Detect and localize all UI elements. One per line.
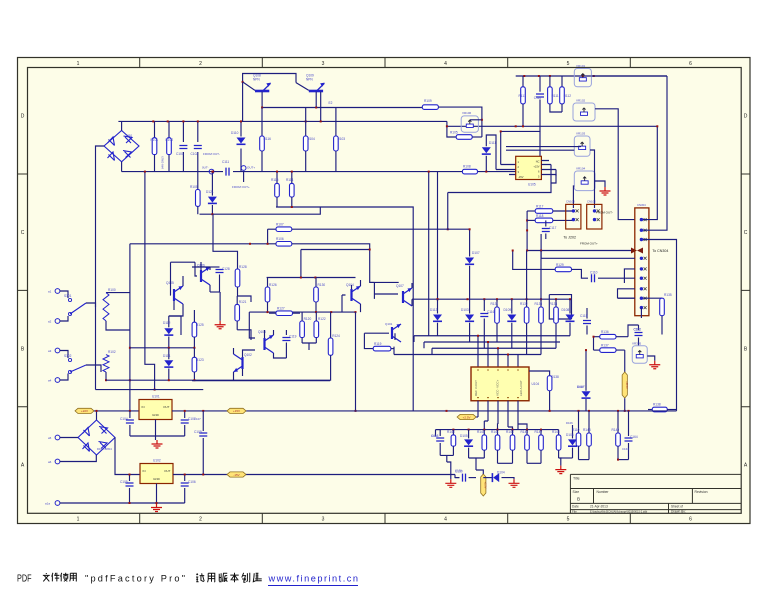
ground: [555, 466, 566, 474]
wire Q104 emitter down: [355, 312, 357, 411]
power flag vertical right: [624, 350, 626, 372]
wire R136 R137 left link: [593, 337, 595, 350]
wire branch to Q cluster: [301, 249, 370, 251]
wire +15V rail: [172, 410, 677, 412]
wire Q109 collector drop: [320, 92, 322, 122]
capacitor C105: [129, 475, 131, 482]
resistor R110: [578, 411, 580, 433]
power flag +15V: [227, 408, 246, 413]
wire trunk C: [447, 193, 449, 230]
diode D121: [208, 197, 217, 203]
wire C113 R145 bottom: [440, 455, 453, 479]
port: [241, 166, 246, 171]
capacitor C101: [179, 146, 187, 149]
resistor R114: [290, 183, 295, 197]
wire link bottom right2: [618, 459, 629, 461]
wire Q-cluster feed: [300, 250, 302, 278]
capacitor C111: [226, 168, 229, 176]
wire R129 right: [572, 269, 589, 278]
resistor R146: [558, 430, 560, 435]
capacitor C119: [285, 330, 287, 335]
port: [55, 501, 60, 506]
capacitor C164: [625, 438, 633, 441]
resistor R113: [521, 87, 526, 104]
ground: [152, 440, 163, 448]
wire Q102 wiring: [234, 348, 256, 381]
power flag +22V: [75, 408, 94, 413]
diode D197: [585, 350, 587, 391]
wire R136 R137 right links: [616, 337, 628, 350]
trimmer VR106: [461, 116, 478, 132]
capacitor C110: [536, 94, 544, 97]
capacitor C130: [455, 477, 459, 479]
connector CN103: [566, 204, 581, 229]
capacitor C106: [181, 483, 189, 486]
wire rail y389: [96, 389, 204, 391]
diode D107: [465, 258, 474, 264]
transistor Q106: [200, 270, 202, 282]
resistor R134: [555, 299, 557, 307]
diode D121: [211, 172, 213, 196]
resistor R122: [314, 321, 319, 338]
resistor R134: [554, 307, 559, 323]
wire Q107 collector: [411, 283, 413, 288]
wire VR104 gnd: [595, 181, 605, 187]
resistor R149: [616, 433, 621, 446]
capacitor C115: [583, 321, 591, 324]
capacitor C113: [436, 438, 444, 441]
switch S102: [68, 358, 71, 361]
resistor R128: [235, 269, 240, 287]
wire out- rail right part: [233, 171, 516, 173]
resistor R124: [328, 338, 333, 355]
wire VR103 left lines: [506, 147, 581, 151]
wire VR305 gnd: [647, 356, 655, 361]
power flag +2.5V: [457, 414, 476, 419]
wire pin feed vertical: [500, 131, 502, 164]
resistor R143: [512, 430, 514, 435]
wire D112 top: [169, 316, 181, 335]
wire R105 line: [447, 126, 456, 137]
wire rail to CN304: [527, 250, 631, 252]
resistor R148: [588, 411, 590, 433]
inner border frame: [28, 68, 742, 514]
trimmer VR101: [574, 69, 591, 87]
wire rail y214: [200, 207, 321, 214]
wire cluster top rail: [267, 277, 356, 279]
wire Q105 wiring: [169, 276, 183, 316]
wire R104 column: [305, 108, 307, 137]
wire pin6 net: [555, 170, 557, 177]
capacitor C102: [194, 146, 202, 149]
wire trunk x129: [129, 244, 131, 411]
wire VR106 wiper: [470, 119, 482, 121]
resistor R143: [510, 435, 515, 450]
transistor Q107: [402, 291, 404, 303]
wire R100 bottom: [106, 321, 130, 330]
capacitor C110: [592, 274, 595, 282]
resistor R126: [265, 287, 270, 302]
wire pin9 down: [640, 308, 642, 318]
regulator U101: [139, 400, 172, 420]
resistor R123: [192, 357, 197, 372]
wire VR104 to CN103: [572, 186, 575, 208]
diode D112: [168, 316, 170, 327]
wire Q109 emitter: [315, 92, 317, 108]
wire D104 right gnd: [502, 478, 515, 480]
capacitor C105: [126, 483, 134, 486]
wire VR102 out: [595, 109, 635, 220]
resistor R115: [276, 172, 278, 184]
power flag -15V: [227, 472, 246, 477]
resistor R145: [452, 430, 454, 435]
wire bridge left to trunk: [96, 146, 105, 307]
resistor R132: [526, 251, 528, 308]
resistor R127: [276, 311, 293, 316]
wire trunk B: [437, 172, 439, 300]
diode D105: [464, 439, 473, 445]
wire CN pin2 right: [643, 76, 667, 230]
wire out- rail: [122, 171, 223, 173]
wire Q107 base loop: [370, 282, 398, 299]
wire R128 feed: [213, 214, 238, 262]
transistor Q104: [350, 289, 352, 301]
resistor R130: [315, 278, 317, 288]
resistor R102: [167, 138, 172, 155]
diode D106: [572, 425, 574, 438]
capacitor C116: [480, 314, 488, 317]
resistor R105b: [197, 172, 199, 190]
diode D107 trunk: [469, 229, 471, 256]
resistor R132: [524, 307, 529, 323]
resistor R108: [462, 169, 477, 174]
wire bus row2: [424, 341, 560, 343]
capacitor C115: [586, 308, 588, 319]
capacitor C104: [129, 411, 131, 418]
trimmer VR305: [632, 346, 647, 364]
capacitor C128: [210, 266, 220, 268]
wire rail y380: [106, 379, 330, 381]
wire pin5 net: [624, 269, 634, 283]
diode D109: [511, 299, 513, 313]
wire R112 column: [561, 76, 563, 87]
resistor R107: [276, 227, 292, 232]
capacitor C102: [197, 121, 199, 142]
resistor R136: [600, 334, 616, 339]
wire bridge2 top: [96, 411, 98, 420]
wire R118 right: [553, 219, 574, 221]
diode D105: [468, 430, 470, 439]
capacitor C109: [199, 433, 207, 436]
switch S101: [68, 298, 71, 301]
wire -15V rail: [173, 474, 455, 476]
resistor R125: [192, 322, 197, 337]
transistor Q109: [296, 83, 309, 91]
wire R113 column: [522, 76, 524, 87]
capacitor C117: [542, 229, 550, 232]
resistor R133: [540, 251, 542, 308]
wire R124 bottom corner: [329, 380, 331, 382]
resistor R141: [495, 435, 500, 450]
wire flag bottom: [624, 398, 626, 411]
wire R139 right corner: [667, 409, 676, 411]
wire port7 rail: [60, 502, 185, 504]
resistor R102: [103, 355, 109, 372]
wire R127 ends: [269, 312, 300, 314]
wire Q104 wiring: [342, 280, 361, 312]
wire Q106 wiring: [192, 262, 210, 292]
svg-text:www.fineprint.cn: www.fineprint.cn: [268, 574, 359, 584]
wire C110 column: [539, 76, 541, 92]
resistor R117: [535, 209, 553, 214]
wire R109 to VR106 loop: [438, 107, 482, 137]
op-amp U104: [471, 367, 529, 401]
wire left trunk x95: [95, 307, 97, 389]
diode D114: [168, 348, 170, 360]
port: [55, 435, 60, 440]
wire pair link1: [498, 462, 513, 464]
wire R107 left corner: [267, 229, 269, 244]
resistor R111: [548, 87, 553, 104]
resistor R100 zigzag: [106, 292, 130, 294]
resistor R120: [300, 321, 305, 338]
resistor R142: [539, 435, 544, 450]
wire pin8 R135: [618, 297, 663, 299]
wire box loop: [549, 295, 571, 319]
capacitor C130: [463, 474, 466, 482]
capacitor C106: [184, 475, 186, 482]
wire Q101 loop: [364, 333, 395, 348]
wire C312 top: [628, 325, 639, 337]
resistor R140: [483, 430, 485, 435]
capacitor C312: [638, 325, 640, 330]
wire C128 bottom: [210, 291, 220, 293]
node To CN304 bowtie: [631, 248, 643, 254]
resistor R112: [560, 87, 565, 104]
wire U104 right: [529, 371, 550, 376]
resistor R133: [539, 307, 544, 323]
resistor R118: [527, 219, 535, 221]
diode D113: [433, 315, 442, 321]
wire R117 right: [553, 210, 574, 212]
wire R139 line: [648, 409, 652, 411]
diode D110: [237, 138, 246, 144]
resistor R144: [526, 430, 528, 435]
wire U105 left pins: [496, 165, 516, 175]
resistor R140: [482, 435, 487, 450]
resistor R114: [291, 172, 293, 184]
wire pair link2: [527, 462, 541, 464]
diode D103: [465, 315, 474, 321]
resistor R118: [535, 218, 553, 223]
resistor R103: [334, 136, 339, 151]
wire U105 pin1 feed: [501, 131, 540, 156]
wire R119 right: [391, 348, 394, 350]
wire +22V rail: [94, 410, 139, 412]
svg-text:PDF: PDF: [17, 574, 32, 585]
wire pin7 loop: [618, 289, 635, 298]
diode D103: [469, 299, 471, 313]
resistor R106: [276, 242, 292, 247]
regulator U102: [140, 464, 173, 484]
wire bus row1: [414, 335, 570, 337]
wire Q103 wiring: [249, 312, 286, 358]
ground: [600, 187, 611, 195]
transistor Q105: [173, 289, 175, 301]
wire port3: [60, 351, 68, 359]
wire C110b right: [598, 277, 635, 279]
diode D111: [482, 147, 491, 153]
transistor Q101: [391, 327, 393, 339]
resistor R129: [555, 267, 571, 272]
diode D112: [164, 328, 173, 334]
resistor R148: [587, 433, 592, 446]
wire U102 gnd: [156, 484, 158, 504]
resistor R145: [451, 435, 456, 446]
wire R103 column: [335, 108, 337, 137]
resistor R130: [314, 287, 319, 302]
wire bus row4: [394, 354, 541, 356]
resistor R121: [236, 296, 238, 304]
wire bridge top: [121, 121, 123, 130]
wire R105 right: [472, 136, 482, 138]
diode D106: [568, 439, 577, 445]
wire emitter rail: [262, 107, 422, 109]
wire port1: [60, 291, 68, 298]
resistor R125: [193, 310, 195, 322]
resistor R138: [652, 407, 667, 412]
wire bus left drops: [394, 336, 432, 355]
svg-text:"pdfFactory Pro": "pdfFactory Pro": [85, 574, 185, 584]
transistor Q103: [263, 338, 265, 350]
transistor Q108: [243, 82, 255, 91]
wire cluster bottom rail: [192, 380, 330, 382]
wire top rail: [118, 120, 447, 122]
wire link bottom right1: [579, 459, 590, 461]
port: [55, 289, 60, 294]
wire C117 bottom: [545, 234, 547, 240]
resistor R116: [260, 136, 265, 151]
wire U104 bottom pins: [478, 401, 527, 430]
capacitor C119: [282, 338, 290, 341]
wire Q108 base net: [243, 74, 296, 122]
resistor R137: [600, 348, 616, 353]
wire R121 top: [237, 296, 251, 302]
resistor R120: [301, 312, 303, 321]
resistor R102: [168, 121, 170, 137]
wire D111 bottom: [485, 156, 487, 172]
wire VR103 to CN102: [590, 150, 595, 208]
port: [55, 348, 60, 353]
diode D109: [507, 315, 516, 321]
wire diode row top rail: [412, 299, 570, 306]
wire base rail y312: [249, 311, 355, 313]
capacitor C110c: [184, 411, 186, 418]
wire flag wire: [476, 416, 478, 418]
wire Q102 base link: [237, 330, 251, 340]
title block: [570, 474, 741, 513]
wire R106 net left: [130, 243, 276, 245]
resistor R149: [617, 411, 619, 433]
diode D108: [569, 299, 571, 313]
resistor R126: [267, 278, 269, 288]
resistor R135: [660, 298, 665, 316]
wire R111 column: [549, 76, 551, 87]
wire R107 net: [292, 228, 470, 230]
resistor R117: [527, 210, 535, 212]
wire bottom rail left drop: [435, 430, 437, 436]
wire trunk A: [428, 172, 430, 336]
zone tick marks: [139, 58, 141, 524]
resistor R136: [594, 336, 600, 338]
capacitor C116: [483, 299, 485, 311]
resistor R121: [235, 304, 240, 321]
wire R106 net right: [292, 244, 399, 283]
resistor R100: [103, 293, 109, 321]
resistor R115: [275, 183, 280, 197]
diode D114: [164, 360, 173, 366]
resistor R101: [152, 138, 157, 155]
wire pin4 net: [541, 234, 635, 258]
port: [55, 378, 60, 383]
power flag +2.5V: [481, 474, 486, 496]
port: [55, 459, 60, 464]
resistor R144: [525, 435, 530, 450]
capacitor C128: [216, 270, 224, 273]
resistor R119: [373, 346, 391, 351]
port: [55, 319, 60, 324]
wire CN pin1 right: [643, 126, 657, 219]
power flag +215V: [622, 372, 627, 398]
wire -15V rail tail: [455, 475, 459, 478]
resistor R128: [237, 262, 239, 269]
wire main rail mid right: [515, 125, 517, 127]
node U104 pin ticks: [477, 370, 519, 398]
resistor R107: [268, 228, 276, 230]
wire R117 R118 left column: [526, 211, 528, 251]
wire U101 gnd: [155, 420, 157, 441]
wire R111 bottom step: [550, 104, 562, 112]
schematic sheet background: [18, 58, 751, 524]
trimmer VR104: [574, 171, 595, 191]
capacitor C164: [628, 411, 630, 436]
wire R116 column: [261, 108, 263, 137]
resistor R122: [315, 312, 317, 321]
resistor R105: [456, 135, 472, 140]
wire trunk x144: [145, 172, 155, 390]
resistor R104: [303, 136, 308, 151]
wire U105 right pins: [541, 161, 556, 184]
resistor R146: [556, 435, 561, 450]
wire rail step down: [447, 121, 657, 126]
wire D111 top: [486, 135, 496, 170]
ground mid left: [219, 292, 221, 321]
resistor R131: [495, 307, 500, 323]
resistor R105: [196, 190, 201, 207]
wire R120 R122 bottoms: [302, 343, 316, 350]
bridge rectifier 4B1: [104, 131, 139, 162]
capacitor C104: [126, 420, 134, 423]
wire R115 R114 bottoms rail: [276, 197, 413, 411]
capacitor C107: [181, 420, 189, 423]
diode D197: [582, 391, 591, 397]
connector CN304: [635, 208, 649, 316]
resistor R124: [330, 312, 332, 338]
port: [209, 169, 214, 174]
ground: [151, 504, 162, 512]
resistor R131: [496, 299, 498, 307]
wire CN pin3 right: [643, 240, 677, 411]
